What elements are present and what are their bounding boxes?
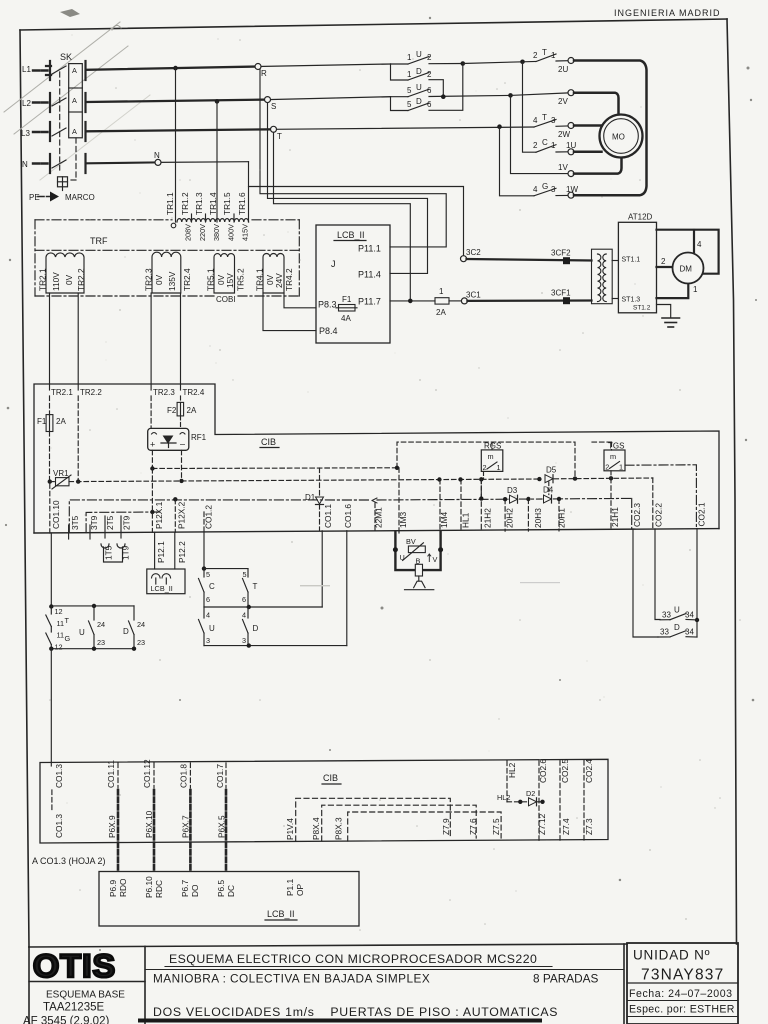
svg-text:HL2: HL2 [497,793,510,802]
wire TR2.2 down [77,293,79,390]
svg-text:F1: F1 [37,417,47,426]
contact 33U34 [660,606,697,620]
transformer TR2.1-TR2.2 secondary [46,253,84,293]
earth terminal square [58,177,68,191]
terminal S [265,97,277,111]
svg-text:1M4: 1M4 [439,511,449,528]
wire L1 drop to primary [175,68,177,222]
main terminal bus [34,529,719,533]
svg-text:CO1.10: CO1.10 [51,500,61,529]
svg-text:V: V [433,555,438,564]
terminal T [271,126,283,141]
svg-text:73NAY837: 73NAY837 [641,967,724,984]
fuse F2 2A [167,396,197,428]
svg-text:P11.4: P11.4 [358,270,381,280]
svg-text:2: 2 [605,463,609,472]
svg-text:Z7.5: Z7.5 [491,818,501,835]
logo OTIS [29,948,145,984]
motor DM [673,253,704,284]
svg-text:20H1: 20H1 [557,508,567,528]
terminal HL1 [461,479,471,531]
wire L2 drop to primary [216,101,218,222]
dashed interlock line D3 D4 [377,498,632,528]
svg-text:2U: 2U [558,65,568,74]
tie P6X.7 [181,790,191,872]
wire T down to 4G3 row [500,127,535,196]
node minus 21H1 [609,476,613,480]
connector LCB_II small [147,569,185,594]
svg-text:Z7.6: Z7.6 [468,818,478,835]
svg-text:3: 3 [551,116,556,125]
svg-text:OTIS: OTIS [33,948,116,984]
contact D lower [242,607,259,646]
varistor VR1 [52,469,71,489]
wire CO1.2 down [203,532,205,569]
svg-text:+: + [150,440,155,450]
svg-text:6: 6 [242,595,246,604]
svg-text:2A: 2A [56,417,66,426]
wire RF1 plus down [151,450,153,468]
svg-text:6: 6 [427,86,432,95]
transformer TR4 secondary [263,254,284,294]
svg-text:HL2: HL2 [507,762,517,778]
svg-text:RDO: RDO [118,878,128,897]
fuse 1 2A [435,287,462,317]
contact T [242,579,258,608]
label INGENIERIA MADRID [614,8,721,18]
svg-text:1: 1 [551,51,556,60]
svg-text:VR1: VR1 [53,469,69,478]
svg-text:CO1.12: CO1.12 [142,759,152,788]
terminal 21H2 [481,479,492,531]
label UNIDAD [627,948,738,984]
terminal 2V [558,90,574,106]
node gamma 20H2 [503,497,507,501]
svg-text:Z7.3: Z7.3 [584,818,594,835]
svg-text:ESQUEMA ELECTRICO CON MICRO: ESQUEMA ELECTRICO CON MICROPROCESADOR MC… [169,952,537,966]
wire CO2.1 down [696,529,698,638]
contact D 24 23 [123,606,145,649]
fuse F1 2A [37,396,66,481]
svg-text:TRF: TRF [90,236,108,246]
terminal HL2 [507,761,517,802]
transformer TR1 primary winding [171,214,248,228]
node L1-TR junction [173,66,178,71]
svg-text:CIB: CIB [261,437,276,447]
wire AT12D top loop to DM [657,230,719,298]
wire CO1.10 down [50,533,52,607]
svg-text:P6X.9: P6X.9 [107,815,117,838]
terminal CO1.8 [179,763,191,788]
svg-text:U: U [209,624,215,633]
svg-text:LCB_II: LCB_II [337,230,365,240]
wire RF1 minus down [181,450,183,480]
svg-text:33: 33 [662,611,671,620]
pin P6.9 RDO [108,878,128,897]
wire 3C2 to transformer [467,259,592,261]
svg-text:ST1.3: ST1.3 [622,297,641,304]
svg-text:Z7.9: Z7.9 [441,818,451,835]
svg-text:TR1.2: TR1.2 [180,192,190,215]
svg-text:23: 23 [97,638,105,647]
wire 1U to motor [574,151,602,154]
rectifier RF1 [148,428,207,450]
terminal CO2.5 Z7.4 [560,759,571,841]
svg-text:2: 2 [427,53,432,62]
terminal 3CF2 [551,249,571,265]
svg-text:m: m [488,452,494,461]
node minus D5 left [537,477,541,481]
svg-text:T: T [542,48,547,57]
node minus 1M4 [437,477,441,481]
terminal CO1.2 [204,505,214,532]
svg-text:TR2.1: TR2.1 [38,268,48,291]
wire TR2.2 dashed down [77,396,79,481]
svg-text:DO: DO [190,884,200,897]
title block heavy bottom line [140,1019,540,1023]
wire 1U2 to 2T1 [463,62,523,64]
wire left riser to lower box [50,649,52,766]
node L2-TR junction [215,99,220,104]
terminal P12X.1 [152,469,164,533]
svg-text:21H2: 21H2 [483,508,493,528]
svg-text:A CO1.3 (HOJA 2): A CO1.3 (HOJA 2) [32,856,106,866]
node minus 21H2 [479,477,483,481]
buzzer under BV [405,564,434,589]
tie P6X.10 [144,790,154,872]
svg-text:CO1.2: CO1.2 [204,505,214,529]
svg-text:P1.1: P1.1 [285,879,295,896]
contact C [199,569,249,607]
svg-text:T: T [253,582,258,591]
svg-text:3T5: 3T5 [70,515,80,530]
svg-text:SK: SK [60,52,72,62]
contactor SK main contacts box [69,64,83,138]
terminal 20H2 [505,499,515,531]
svg-text:ESQUEMA BASE: ESQUEMA BASE [46,990,125,1001]
dashed group box 3T5 [69,500,371,533]
svg-text:D: D [416,67,422,76]
svg-text:RGS: RGS [484,441,501,450]
svg-text:P12.2: P12.2 [177,541,187,563]
svg-text:TR5.1: TR5.1 [206,268,216,291]
svg-text:TR2.4: TR2.4 [182,268,192,291]
contact 4G3 [533,182,578,196]
node gamma 20H3 [526,497,530,501]
svg-text:DM: DM [680,265,693,274]
svg-text:5: 5 [243,570,247,579]
contact U 24 23 [79,606,105,649]
node P11.7 junction [408,299,413,304]
pin P6.5 DC [216,880,236,897]
node BV right [438,547,443,552]
scan noise specks [49,39,741,931]
svg-text:J: J [331,259,336,269]
svg-text:P12X.2: P12X.2 [177,501,187,529]
label Espec [627,1004,738,1017]
breaker-isolator poles L1 L2 L3 N (left clips) [46,61,51,173]
terminal CO1.3 tick [51,790,53,812]
node VR1 left [48,479,52,483]
svg-text:11: 11 [57,631,65,640]
wire 2V to motor top [574,93,619,116]
wire U D bottom row [204,645,347,647]
terminal CO1.12 [142,759,154,788]
terminal CO1.10 [50,484,61,533]
terminal N [154,151,161,165]
wire 2W to motor [574,124,601,127]
contact 2T1 [523,48,569,62]
svg-text:–: – [180,439,185,449]
contact U lower [199,607,216,646]
svg-text:D: D [674,623,680,632]
node CO2.1 33U34 [695,618,699,622]
wire CO1.1 return [321,531,323,607]
tie P6X.9 [107,790,118,872]
svg-text:CO1.8: CO1.8 [179,764,189,788]
svg-text:24V: 24V [274,273,284,288]
svg-text:G: G [65,634,71,643]
svg-text:2V: 2V [558,97,568,106]
contact blades L1 L2 L3 N [52,66,66,168]
svg-text:CO1.1: CO1.1 [323,504,333,528]
wire 5U6 down to 1V row [511,95,571,173]
terminal 21H1 [610,478,620,530]
svg-text:2: 2 [483,463,487,472]
dashed group box 3T9 [86,512,160,533]
wire L2 phase [87,100,268,102]
svg-text:F2: F2 [167,406,177,415]
svg-text:24: 24 [137,620,145,629]
contact 5D6 [391,64,463,111]
wire P12.1 [154,532,156,569]
svg-text:TR4.1: TR4.1 [255,268,265,291]
svg-text:LCB_II: LCB_II [151,584,173,593]
svg-text:Z7.4: Z7.4 [561,818,571,835]
svg-text:2W: 2W [558,130,570,139]
node minus line RF1 [179,479,183,483]
terminal 3T5 [69,515,80,539]
label CIB [260,437,279,448]
svg-text:CO2.1: CO2.1 [697,502,707,526]
svg-text:2A: 2A [436,308,446,317]
svg-text:F1: F1 [342,295,352,304]
svg-text:HL1: HL1 [461,512,471,528]
svg-text:TAA21235E: TAA21235E [43,1002,104,1014]
node gamma 21H2 [479,496,483,500]
svg-text:1: 1 [407,70,412,79]
svg-text:P6.7: P6.7 [180,880,190,897]
wire TG to U D row [51,605,134,607]
wire CO1.6 return [346,531,348,646]
svg-text:CIB: CIB [323,773,338,783]
lower cabinet CIB box [40,759,608,843]
svg-text:3CF1: 3CF1 [551,289,571,298]
svg-text:DOS VELOCIDADES 1m/s PUE: DOS VELOCIDADES 1m/s PUERTAS DE PISO : A… [153,1005,558,1019]
terminal 1U [568,149,574,155]
wire 3C1 to transformer [467,299,591,302]
svg-text:4: 4 [533,185,538,194]
connector 1T5 1T9 bracket [104,545,131,562]
terminal 22M1 [372,498,384,532]
svg-text:U: U [416,83,422,92]
svg-text:L1: L1 [22,65,31,74]
title ESQUEMA ELECTRICO [145,952,624,970]
controller LCB_II bottom box [99,872,359,927]
wire TR2.3 down [150,293,152,390]
terminal 3C2 [461,248,482,262]
svg-text:1: 1 [407,53,412,62]
wire TR4 to P8.4 [263,293,316,331]
svg-text:TGS: TGS [608,442,624,451]
svg-text:P6.9: P6.9 [108,880,118,897]
terminal 1M4 [439,479,449,531]
svg-text:AT12D: AT12D [628,213,653,222]
svg-text:D2: D2 [526,789,535,798]
svg-text:20H2: 20H2 [505,508,515,528]
wire D5 D4 link [548,482,550,495]
terminal CO2.4 Z7.3 [584,759,594,841]
svg-text:6: 6 [427,100,432,109]
node BV left [393,547,398,552]
svg-text:P12.1: P12.1 [156,541,166,563]
svg-text:4: 4 [242,611,246,620]
svg-text:P8.4: P8.4 [319,326,338,336]
svg-text:4A: 4A [341,314,351,323]
svg-text:2A: 2A [187,406,197,415]
isolation transformer ST [592,249,613,304]
diode D5 [545,466,557,483]
diode D2 [507,789,543,806]
wire CO2.3 down to 33D34 [633,529,658,637]
dashed link P8X.3 to Z7.5 [348,812,501,841]
node minus x575 [573,476,577,480]
svg-text:8 PARADAS: 8 PARADAS [533,972,598,986]
svg-text:P11.7: P11.7 [358,297,381,307]
node T to 4T3 [497,124,502,129]
dashed link P8X.4 to Z7.6 [322,805,477,841]
pin P1.1 OP [285,879,305,896]
svg-text:D1: D1 [305,493,316,502]
node TG bottom [49,647,53,651]
wire N [87,161,158,164]
svg-text:3: 3 [242,636,246,645]
svg-text:11: 11 [57,619,65,628]
svg-text:TR1.3: TR1.3 [194,192,204,215]
svg-text:1M3: 1M3 [398,511,408,528]
svg-text:PE: PE [29,193,40,202]
svg-text:TR4.2: TR4.2 [284,268,294,291]
diode D4 [543,486,554,504]
svg-text:CO2.2: CO2.2 [654,503,664,527]
node plus 1M3 [395,466,399,470]
svg-text:24: 24 [97,620,105,629]
svg-text:RDC: RDC [154,880,164,898]
wire N drop to primary [248,187,250,223]
svg-text:DC: DC [226,885,236,897]
svg-text:0V: 0V [154,274,164,285]
node 2T1 input [520,60,525,65]
svg-text:208V: 208V [184,224,193,241]
svg-text:m: m [610,452,616,461]
svg-text:UNIDAD Nº: UNIDAD Nº [633,948,710,963]
terminal 2T9 [117,515,132,548]
diode D1 [305,468,324,531]
svg-text:P12X.1: P12X.1 [154,501,164,529]
node U bottom [92,647,96,651]
svg-text:N: N [154,151,160,160]
wire TR4 to P8.3 [284,293,316,308]
svg-text:P8X.3: P8X.3 [334,817,344,840]
contact T G changeover [46,607,71,652]
svg-text:1: 1 [693,285,698,294]
svg-text:TR2.2: TR2.2 [80,388,102,397]
svg-text:TR1.5: TR1.5 [222,192,232,215]
svg-text:2T9: 2T9 [122,515,132,530]
node 1U2 output [461,61,466,66]
wire CO2.2 down to 33U34 [655,529,660,620]
wire T to P11.7 [274,132,411,301]
svg-text:TR2.2: TR2.2 [76,268,86,291]
svg-text:415V: 415V [241,224,250,241]
transformer TR5 secondary COBI [214,254,235,293]
svg-text:T: T [277,132,282,141]
svg-text:3C1: 3C1 [466,291,481,300]
wire N to 3C2 drop [249,162,464,256]
svg-text:22M1: 22M1 [374,507,384,528]
speed sensor BV [395,531,440,570]
node P12X.2 top [173,497,177,501]
svg-text:P6.5: P6.5 [216,880,226,897]
node D bottom [132,647,136,651]
svg-text:U: U [674,606,680,615]
node P12X.1 mid [150,510,154,514]
node U top [92,604,96,608]
pin P6.10 RDC [144,876,164,898]
svg-text:34: 34 [685,628,694,637]
svg-text:TR2.3: TR2.3 [144,268,154,291]
terminal 1V [558,163,574,177]
contact 1U2 [391,50,463,64]
tie P6X.5 [217,790,227,872]
svg-text:C: C [542,138,548,147]
wire ST to ST1.1 [612,260,618,262]
svg-text:TR1.1: TR1.1 [165,192,175,215]
svg-text:TR2.3: TR2.3 [153,388,175,397]
wire L1 phase [87,67,258,70]
svg-text:ST1.2: ST1.2 [633,305,651,312]
wire dc plus dashed line [152,442,611,479]
svg-text:TR2.4: TR2.4 [183,388,205,397]
svg-text:P8X.4: P8X.4 [311,817,321,840]
dashed link P1V.4 to Z7.9 [296,798,451,841]
svg-text:CO2.3: CO2.3 [632,503,642,527]
svg-text:TR2.1: TR2.1 [51,388,73,397]
label Fecha [627,988,738,1001]
node contact C top [202,566,206,570]
contact 33D34 [658,623,697,637]
svg-text:CO2.4: CO2.4 [584,759,594,783]
controller LCB_II [316,225,390,343]
svg-text:1: 1 [551,141,556,150]
wire TR2.1 down [49,293,51,390]
node D2 out [540,800,544,804]
wire ST to ST1.3 [612,298,618,300]
contact 2C1 [533,138,576,152]
terminal 20H3 [528,499,543,531]
svg-text:135V: 135V [167,271,177,291]
terminal CO2.6 Z7.12 [537,759,548,841]
